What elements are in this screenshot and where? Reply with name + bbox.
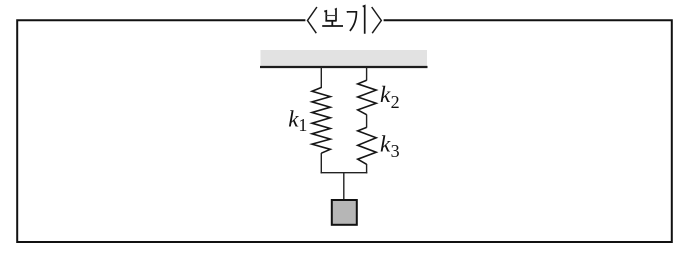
title glyph gi <box>347 6 365 34</box>
bottom bar joining springs <box>321 172 368 174</box>
mass block <box>332 200 357 225</box>
spring k2 <box>358 80 377 114</box>
ceiling line <box>260 66 428 68</box>
ceiling slab <box>261 50 428 67</box>
title angle bracket right <box>372 7 382 33</box>
svg-text:3: 3 <box>391 141 400 161</box>
svg-text:1: 1 <box>298 115 307 135</box>
wire bar to mass <box>343 173 345 200</box>
label k3 <box>380 131 400 161</box>
label k2 <box>380 82 400 112</box>
wire spring k3 to bar <box>366 164 368 173</box>
title angle bracket left <box>308 7 317 33</box>
svg-text:2: 2 <box>391 92 400 112</box>
spring k3 <box>358 127 377 164</box>
wire ceiling to spring k2 <box>366 67 368 81</box>
title glyph bo <box>322 9 343 26</box>
wire spring k1 to bar <box>320 153 322 173</box>
svg-text:k: k <box>380 131 391 156</box>
svg-text:k: k <box>380 82 391 107</box>
wire ceiling to spring k1 <box>320 67 322 88</box>
label k1 <box>288 106 307 134</box>
spring k1 <box>312 88 330 154</box>
wire spring k2 to spring k3 <box>366 115 368 128</box>
